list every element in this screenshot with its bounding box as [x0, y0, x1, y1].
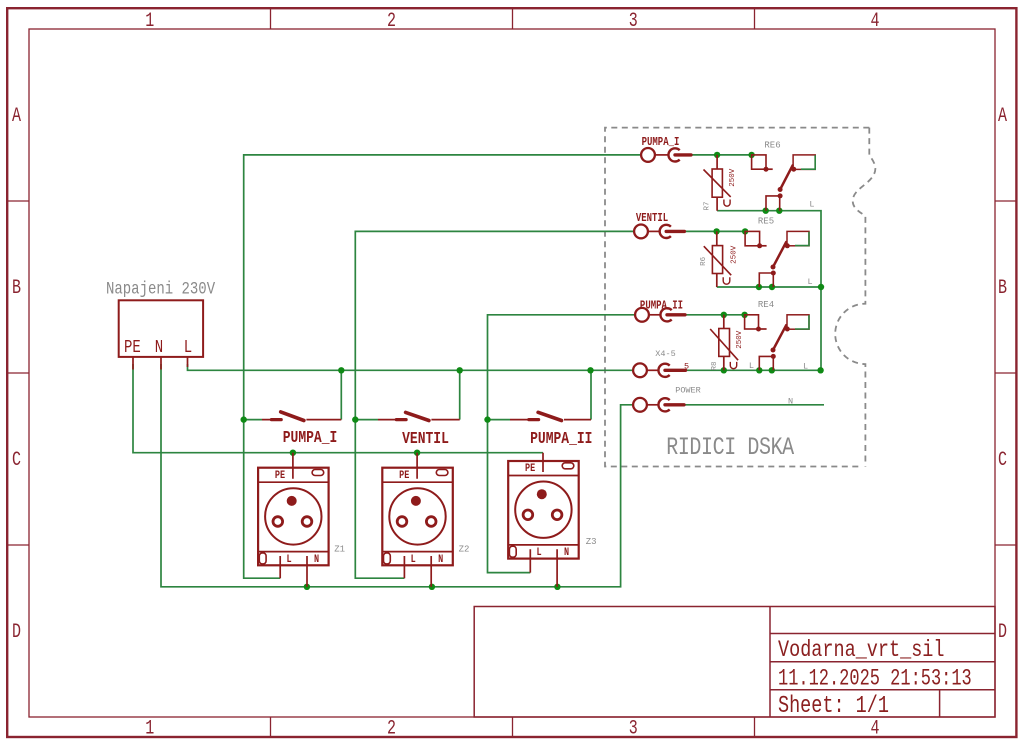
- svg-text:L: L: [286, 554, 291, 567]
- svg-text:C: C: [998, 449, 1007, 472]
- junction L rail / RE4 contact pin 2: [769, 367, 775, 373]
- wire S3 output to L rail: [590, 370, 592, 419]
- varistor R6: [704, 231, 731, 287]
- varistor R7: [704, 155, 731, 211]
- svg-text:Z3: Z3: [586, 537, 597, 547]
- svg-text:L: L: [807, 277, 812, 287]
- svg-text:N: N: [438, 554, 443, 567]
- junction PE rail / Z1 PE pin: [290, 450, 296, 456]
- connector X4-5: [633, 363, 685, 377]
- svg-text:RE6: RE6: [764, 140, 780, 150]
- svg-text:L: L: [537, 547, 542, 560]
- svg-text:RE4: RE4: [758, 300, 774, 310]
- junction PE rail / Z2 PE pin: [414, 450, 420, 456]
- board outline RIDICI DSKA (dashed): [605, 128, 875, 467]
- socket Z2: [382, 453, 453, 587]
- junction PUMPA_II net / RE4 coil: [741, 312, 747, 318]
- svg-text:N: N: [155, 336, 163, 357]
- svg-text:B: B: [998, 277, 1007, 300]
- svg-text:Vodarna_vrt_sil: Vodarna_vrt_sil: [778, 638, 945, 663]
- connector PUMPA_I: [641, 148, 691, 162]
- junction L rail / S3 output: [587, 367, 593, 373]
- junction S2 input: [352, 416, 358, 422]
- svg-text:5: 5: [684, 361, 689, 371]
- junction PUMPA_I net / R7 pin: [714, 152, 720, 158]
- socket Z3: [508, 453, 579, 587]
- svg-text:PUMPA_II: PUMPA_II: [530, 431, 592, 449]
- wire L rail: [188, 364, 634, 370]
- junction N bus / Z1 N pin: [304, 584, 310, 590]
- junction L rail / R8 pin: [721, 367, 727, 373]
- junction RE5 row wire / contact pin 1: [756, 284, 762, 290]
- junction RE6 row wire / contact pin 1: [763, 208, 769, 214]
- junction L rail / RE4 contact pin 1: [756, 367, 762, 373]
- svg-text:A: A: [12, 105, 21, 128]
- svg-text:PE: PE: [399, 470, 409, 483]
- wire S3 input stub: [488, 419, 511, 421]
- svg-text:Sheet: 1/1: Sheet: 1/1: [778, 693, 889, 720]
- connector VENTIL: [634, 225, 684, 239]
- power supply Napajeni 230V: [106, 279, 216, 370]
- svg-text:R8: R8: [711, 361, 719, 370]
- svg-text:PE: PE: [525, 463, 535, 476]
- svg-text:D: D: [12, 621, 21, 644]
- wire S1 input stub: [244, 419, 262, 421]
- svg-text:1: 1: [145, 10, 154, 33]
- svg-text:RE5: RE5: [758, 216, 774, 226]
- wire relay RE5 row: [684, 231, 821, 287]
- svg-text:VENTIL: VENTIL: [636, 212, 668, 225]
- svg-text:2: 2: [387, 718, 396, 741]
- connector POWER: [633, 398, 684, 412]
- switch S3 PUMPA_II: [510, 412, 591, 420]
- svg-text:R7: R7: [704, 201, 712, 210]
- svg-text:POWER: POWER: [675, 385, 701, 395]
- svg-text:250V: 250V: [736, 330, 744, 349]
- wire L rail inside board: [686, 369, 821, 371]
- svg-text:2: 2: [387, 10, 396, 33]
- junction VENTIL net / RE5 coil: [742, 228, 748, 234]
- wire S2 input stub: [355, 419, 378, 421]
- svg-text:VENTIL: VENTIL: [402, 431, 449, 449]
- relay RE6: [752, 155, 816, 211]
- wire N bus: [161, 364, 633, 587]
- junction L rail / S2 output: [457, 367, 463, 373]
- svg-text:RIDICI DSKA: RIDICI DSKA: [666, 433, 794, 462]
- wire relay RE4 row: [685, 314, 745, 316]
- switch S2 VENTIL: [378, 412, 460, 420]
- wire net VENTIL: [355, 231, 634, 578]
- wire net PUMPA_II: [488, 315, 636, 573]
- svg-text:N: N: [788, 396, 793, 406]
- svg-text:11.12.2025 21:53:13: 11.12.2025 21:53:13: [778, 666, 972, 692]
- junction PUMPA_II net / R8 pin: [721, 312, 727, 318]
- svg-text:250V: 250V: [729, 168, 737, 187]
- title block: [474, 607, 995, 718]
- junction RE5 row wire / contact pin 2: [769, 284, 775, 290]
- junction S1 input: [241, 416, 247, 422]
- svg-text:PUMPA_I: PUMPA_I: [642, 136, 680, 149]
- svg-text:L: L: [184, 336, 192, 357]
- junction RE5 row wire / relay return wire: [818, 284, 824, 290]
- junction PUMPA_I net / RE6 coil: [748, 152, 754, 158]
- svg-text:N: N: [314, 554, 319, 567]
- svg-text:R6: R6: [700, 256, 708, 266]
- switch S1 PUMPA_I: [262, 412, 341, 421]
- junction S3 input: [484, 416, 490, 422]
- svg-text:N: N: [564, 547, 569, 560]
- junction RE6 row wire / contact pin 2: [776, 208, 782, 214]
- svg-text:PUMPA_II: PUMPA_II: [640, 300, 683, 313]
- wire net PUMPA_I: [244, 155, 641, 578]
- svg-text:4: 4: [871, 10, 880, 33]
- svg-text:C: C: [12, 449, 21, 472]
- junction L rail / S1 output: [338, 367, 344, 373]
- wire POWER N: [684, 404, 824, 406]
- svg-text:Z2: Z2: [459, 545, 470, 555]
- varistor R8: [710, 315, 738, 371]
- wire PE rail: [133, 364, 543, 453]
- svg-text:Z1: Z1: [334, 545, 345, 555]
- svg-text:A: A: [998, 105, 1007, 128]
- svg-text:X4-5: X4-5: [655, 349, 675, 359]
- svg-text:PE: PE: [124, 336, 141, 357]
- svg-text:3: 3: [629, 10, 638, 33]
- svg-text:3: 3: [629, 718, 638, 741]
- svg-text:PE: PE: [275, 470, 285, 483]
- wire S1 output to L rail: [340, 370, 342, 419]
- svg-text:L: L: [411, 554, 416, 567]
- junction N bus / Z3 N pin: [554, 584, 560, 590]
- svg-text:250V: 250V: [731, 245, 739, 264]
- wire S2 output to L rail: [459, 370, 461, 419]
- connector PUMPA_II: [635, 308, 685, 322]
- wire relay RE6 row: [691, 155, 821, 370]
- svg-text:L: L: [803, 362, 808, 372]
- svg-text:1: 1: [145, 718, 154, 741]
- relay RE5: [745, 231, 809, 287]
- svg-text:PUMPA_I: PUMPA_I: [283, 430, 338, 448]
- junction N bus / Z2 N pin: [429, 584, 435, 590]
- junction VENTIL net / R6 pin: [713, 228, 719, 234]
- relay RE4: [745, 315, 809, 371]
- svg-text:L: L: [749, 361, 754, 371]
- junction L rail / relay return wire: [817, 367, 823, 373]
- svg-text:B: B: [12, 277, 21, 300]
- svg-text:D: D: [998, 621, 1007, 644]
- label RIDICI DSKA: [666, 433, 794, 462]
- svg-text:4: 4: [871, 718, 880, 741]
- socket Z1: [258, 453, 329, 587]
- svg-text:L: L: [809, 200, 814, 210]
- svg-text:Napajeni 230V: Napajeni 230V: [106, 279, 216, 299]
